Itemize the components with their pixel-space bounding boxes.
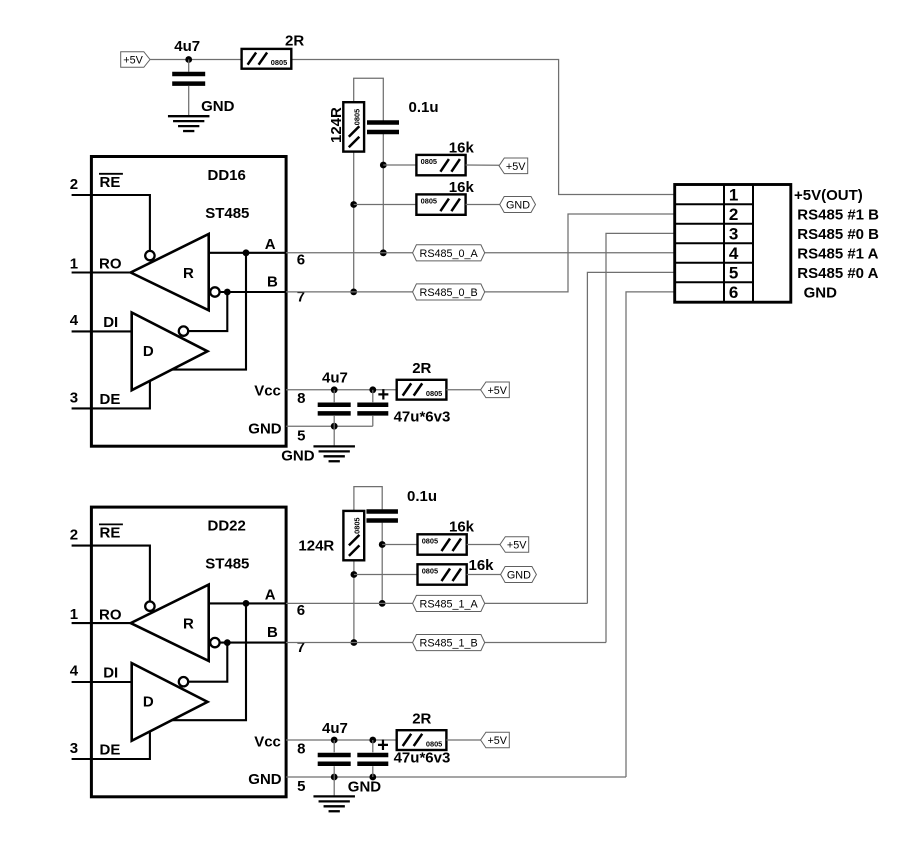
svg-text:0805: 0805 (353, 109, 362, 125)
svg-text:124R: 124R (298, 538, 334, 555)
svg-text:6: 6 (297, 602, 305, 619)
svg-text:2: 2 (70, 527, 78, 544)
svg-text:DE: DE (100, 391, 121, 408)
svg-text:D: D (143, 343, 154, 360)
svg-text:Vcc: Vcc (254, 733, 281, 750)
svg-text:124R: 124R (328, 107, 345, 143)
svg-text:+5V: +5V (488, 735, 508, 747)
svg-text:4: 4 (729, 244, 739, 263)
svg-text:0805: 0805 (422, 537, 438, 546)
svg-text:R: R (183, 616, 194, 633)
svg-text:16k: 16k (449, 519, 475, 536)
svg-text:RS485 #0 A: RS485 #0 A (797, 265, 878, 282)
svg-text:RO: RO (99, 606, 122, 623)
svg-text:4: 4 (70, 312, 79, 329)
svg-text:3: 3 (70, 389, 78, 406)
svg-text:+5V: +5V (506, 161, 526, 173)
svg-text:R: R (183, 265, 194, 282)
svg-text:5: 5 (729, 264, 738, 283)
svg-text:GND: GND (248, 421, 281, 438)
svg-text:RS485 #1 B: RS485 #1 B (797, 207, 879, 224)
svg-text:0.1u: 0.1u (409, 99, 439, 116)
svg-text:+5V: +5V (488, 385, 508, 397)
svg-text:0.1u: 0.1u (407, 488, 437, 505)
svg-text:16k: 16k (449, 179, 475, 196)
svg-text:8: 8 (297, 390, 305, 407)
svg-text:0805: 0805 (422, 567, 438, 576)
svg-text:ST485: ST485 (205, 556, 249, 573)
svg-text:RS485 #1 A: RS485 #1 A (797, 246, 878, 263)
svg-text:A: A (265, 586, 276, 603)
svg-text:0805: 0805 (426, 739, 442, 748)
svg-text:GND: GND (281, 448, 315, 465)
svg-text:2: 2 (70, 176, 78, 193)
svg-text:7: 7 (297, 289, 305, 306)
svg-text:+5V(OUT): +5V(OUT) (794, 187, 863, 204)
svg-text:4u7: 4u7 (322, 370, 348, 387)
svg-text:2R: 2R (285, 32, 304, 49)
svg-text:0805: 0805 (421, 157, 437, 166)
svg-text:RS485_1_B: RS485_1_B (420, 638, 478, 650)
svg-text:5: 5 (297, 778, 305, 795)
svg-text:RS485_1_A: RS485_1_A (420, 598, 479, 610)
svg-text:GND: GND (507, 570, 531, 582)
svg-text:A: A (265, 236, 276, 253)
svg-text:6: 6 (297, 252, 305, 269)
svg-text:B: B (267, 624, 278, 641)
svg-text:GND: GND (348, 778, 382, 795)
svg-text:16k: 16k (449, 139, 475, 156)
svg-text:RS485_0_A: RS485_0_A (420, 248, 479, 260)
svg-text:GND: GND (201, 98, 235, 115)
svg-text:RS485_0_B: RS485_0_B (420, 287, 478, 299)
svg-text:ST485: ST485 (205, 205, 249, 222)
svg-text:2R: 2R (412, 710, 431, 727)
svg-text:+5V: +5V (507, 540, 527, 552)
svg-text:16k: 16k (469, 557, 495, 574)
svg-text:B: B (267, 273, 278, 290)
svg-text:3: 3 (729, 225, 738, 244)
svg-text:47u*6v3: 47u*6v3 (394, 409, 451, 426)
svg-text:DI: DI (103, 314, 118, 331)
svg-text:0805: 0805 (421, 197, 437, 206)
svg-text:D: D (143, 694, 154, 711)
svg-text:DD16: DD16 (208, 167, 246, 184)
svg-text:2: 2 (729, 205, 738, 224)
svg-text:2R: 2R (412, 360, 431, 377)
svg-text:1: 1 (70, 256, 78, 273)
svg-text:DE: DE (100, 741, 121, 758)
svg-text:+: + (377, 734, 389, 756)
svg-text:6: 6 (729, 283, 738, 302)
svg-text:1: 1 (729, 186, 738, 205)
svg-text:GND: GND (248, 771, 281, 788)
svg-text:DI: DI (103, 664, 118, 681)
svg-text:7: 7 (297, 639, 305, 656)
svg-text:+: + (378, 384, 390, 406)
svg-text:0805: 0805 (426, 389, 442, 398)
svg-text:+5V: +5V (123, 55, 143, 67)
svg-text:4: 4 (70, 662, 79, 679)
svg-text:DD22: DD22 (208, 518, 246, 535)
svg-text:RO: RO (99, 256, 122, 273)
svg-text:Vcc: Vcc (254, 383, 281, 400)
svg-text:47u*6v3: 47u*6v3 (394, 749, 451, 766)
svg-text:4u7: 4u7 (174, 38, 200, 55)
svg-text:GND: GND (804, 285, 838, 302)
svg-text:RS485 #0 B: RS485 #0 B (797, 226, 879, 243)
svg-text:4u7: 4u7 (322, 720, 348, 737)
svg-text:RE: RE (100, 174, 121, 191)
svg-text:RE: RE (100, 525, 121, 542)
svg-text:0805: 0805 (353, 517, 362, 533)
svg-text:GND: GND (506, 200, 530, 212)
svg-text:0805: 0805 (271, 58, 287, 67)
svg-text:3: 3 (70, 740, 78, 757)
svg-text:5: 5 (297, 427, 305, 444)
svg-text:8: 8 (297, 741, 305, 758)
svg-text:1: 1 (70, 606, 78, 623)
